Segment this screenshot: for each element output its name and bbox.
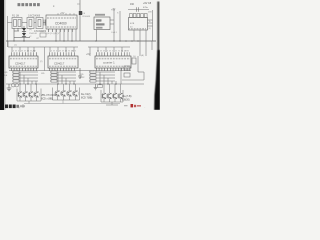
svg-text:(1): (1) [14, 45, 17, 47]
svg-text:16V: 16V [148, 12, 152, 14]
svg-text:8,8(30): 8,8(30) [122, 99, 130, 102]
svg-text:CD4017: CD4017 [54, 62, 65, 66]
svg-text:CD4060: CD4060 [55, 22, 67, 26]
svg-text:(2): (2) [40, 61, 43, 63]
svg-text:C=0.1: C=0.1 [111, 32, 118, 34]
svg-text:counter 1: counter 1 [103, 61, 115, 65]
svg-text:10kx4: 10kx4 [89, 71, 94, 73]
svg-text:10kx4: 10kx4 [51, 71, 56, 73]
svg-text:1k: 1k [149, 21, 151, 23]
svg-text:+9V C8: +9V C8 [143, 2, 152, 5]
svg-text:490: 490 [130, 3, 135, 6]
svg-text:1/6CD4069: 1/6CD4069 [28, 15, 41, 18]
svg-text:10kx4: 10kx4 [13, 71, 18, 73]
svg-text:R1 1M: R1 1M [12, 15, 19, 18]
svg-text:Q4 Q5 Q6 Q7: Q4 Q5 Q6 Q7 [46, 33, 60, 35]
svg-text:CD4069: CD4069 [82, 16, 91, 18]
svg-text:(4): (4) [29, 29, 32, 31]
svg-text:CD4017: CD4017 [15, 62, 26, 66]
svg-text:8CD 7(8B): 8CD 7(8B) [81, 97, 92, 100]
svg-text:+9V: +9V [111, 9, 116, 12]
svg-text:4CB: 4CB [130, 23, 135, 25]
svg-text:1N4148: 1N4148 [29, 33, 37, 35]
svg-text:CP: CP [36, 38, 40, 40]
svg-text:OD: OD [4, 72, 8, 74]
svg-text:470u: 470u [143, 7, 149, 9]
svg-text:(4): (4) [149, 28, 152, 30]
svg-text:OD: OD [80, 74, 84, 76]
svg-text:8CD x (8B): 8CD x (8B) [41, 98, 53, 101]
svg-text:(A): (A) [141, 54, 144, 57]
svg-text:+9V: +9V [60, 12, 65, 15]
svg-text:OD: OD [41, 73, 45, 75]
